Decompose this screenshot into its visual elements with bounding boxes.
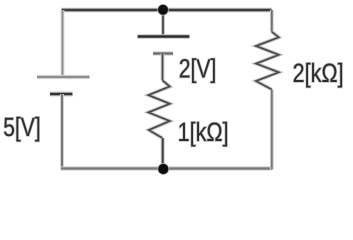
- wire middle vertical lower: [161, 138, 165, 165]
- wire middle vertical mid: [161, 54, 165, 81]
- label 2[V]: [180, 58, 215, 83]
- voltage source V2 2[V] short plate (-): [153, 51, 173, 55]
- wire top horizontal: [62, 8, 272, 13]
- label 1[kΩ]: [179, 122, 227, 147]
- label 5[V]: [4, 117, 39, 142]
- voltage source V1 5[V] long plate (+): [37, 75, 90, 79]
- label 2[kΩ]: [294, 63, 342, 88]
- node bottom junction: [157, 163, 169, 175]
- node top junction: [157, 4, 169, 16]
- voltage source V2 2[V] long plate (+): [138, 34, 190, 39]
- voltage source V1 5[V] short plate (-): [50, 92, 73, 97]
- wire bottom horizontal: [61, 166, 272, 170]
- resistor R2 2[kΩ] zigzag: [256, 32, 279, 90]
- wire right vertical lower: [270, 90, 274, 170]
- wire middle vertical upper: [161, 10, 165, 37]
- resistor R1 1[kΩ] zigzag: [148, 80, 169, 138]
- wire left vertical upper: [61, 10, 65, 77]
- wire left vertical lower: [60, 94, 64, 170]
- wire right vertical upper: [270, 10, 274, 32]
